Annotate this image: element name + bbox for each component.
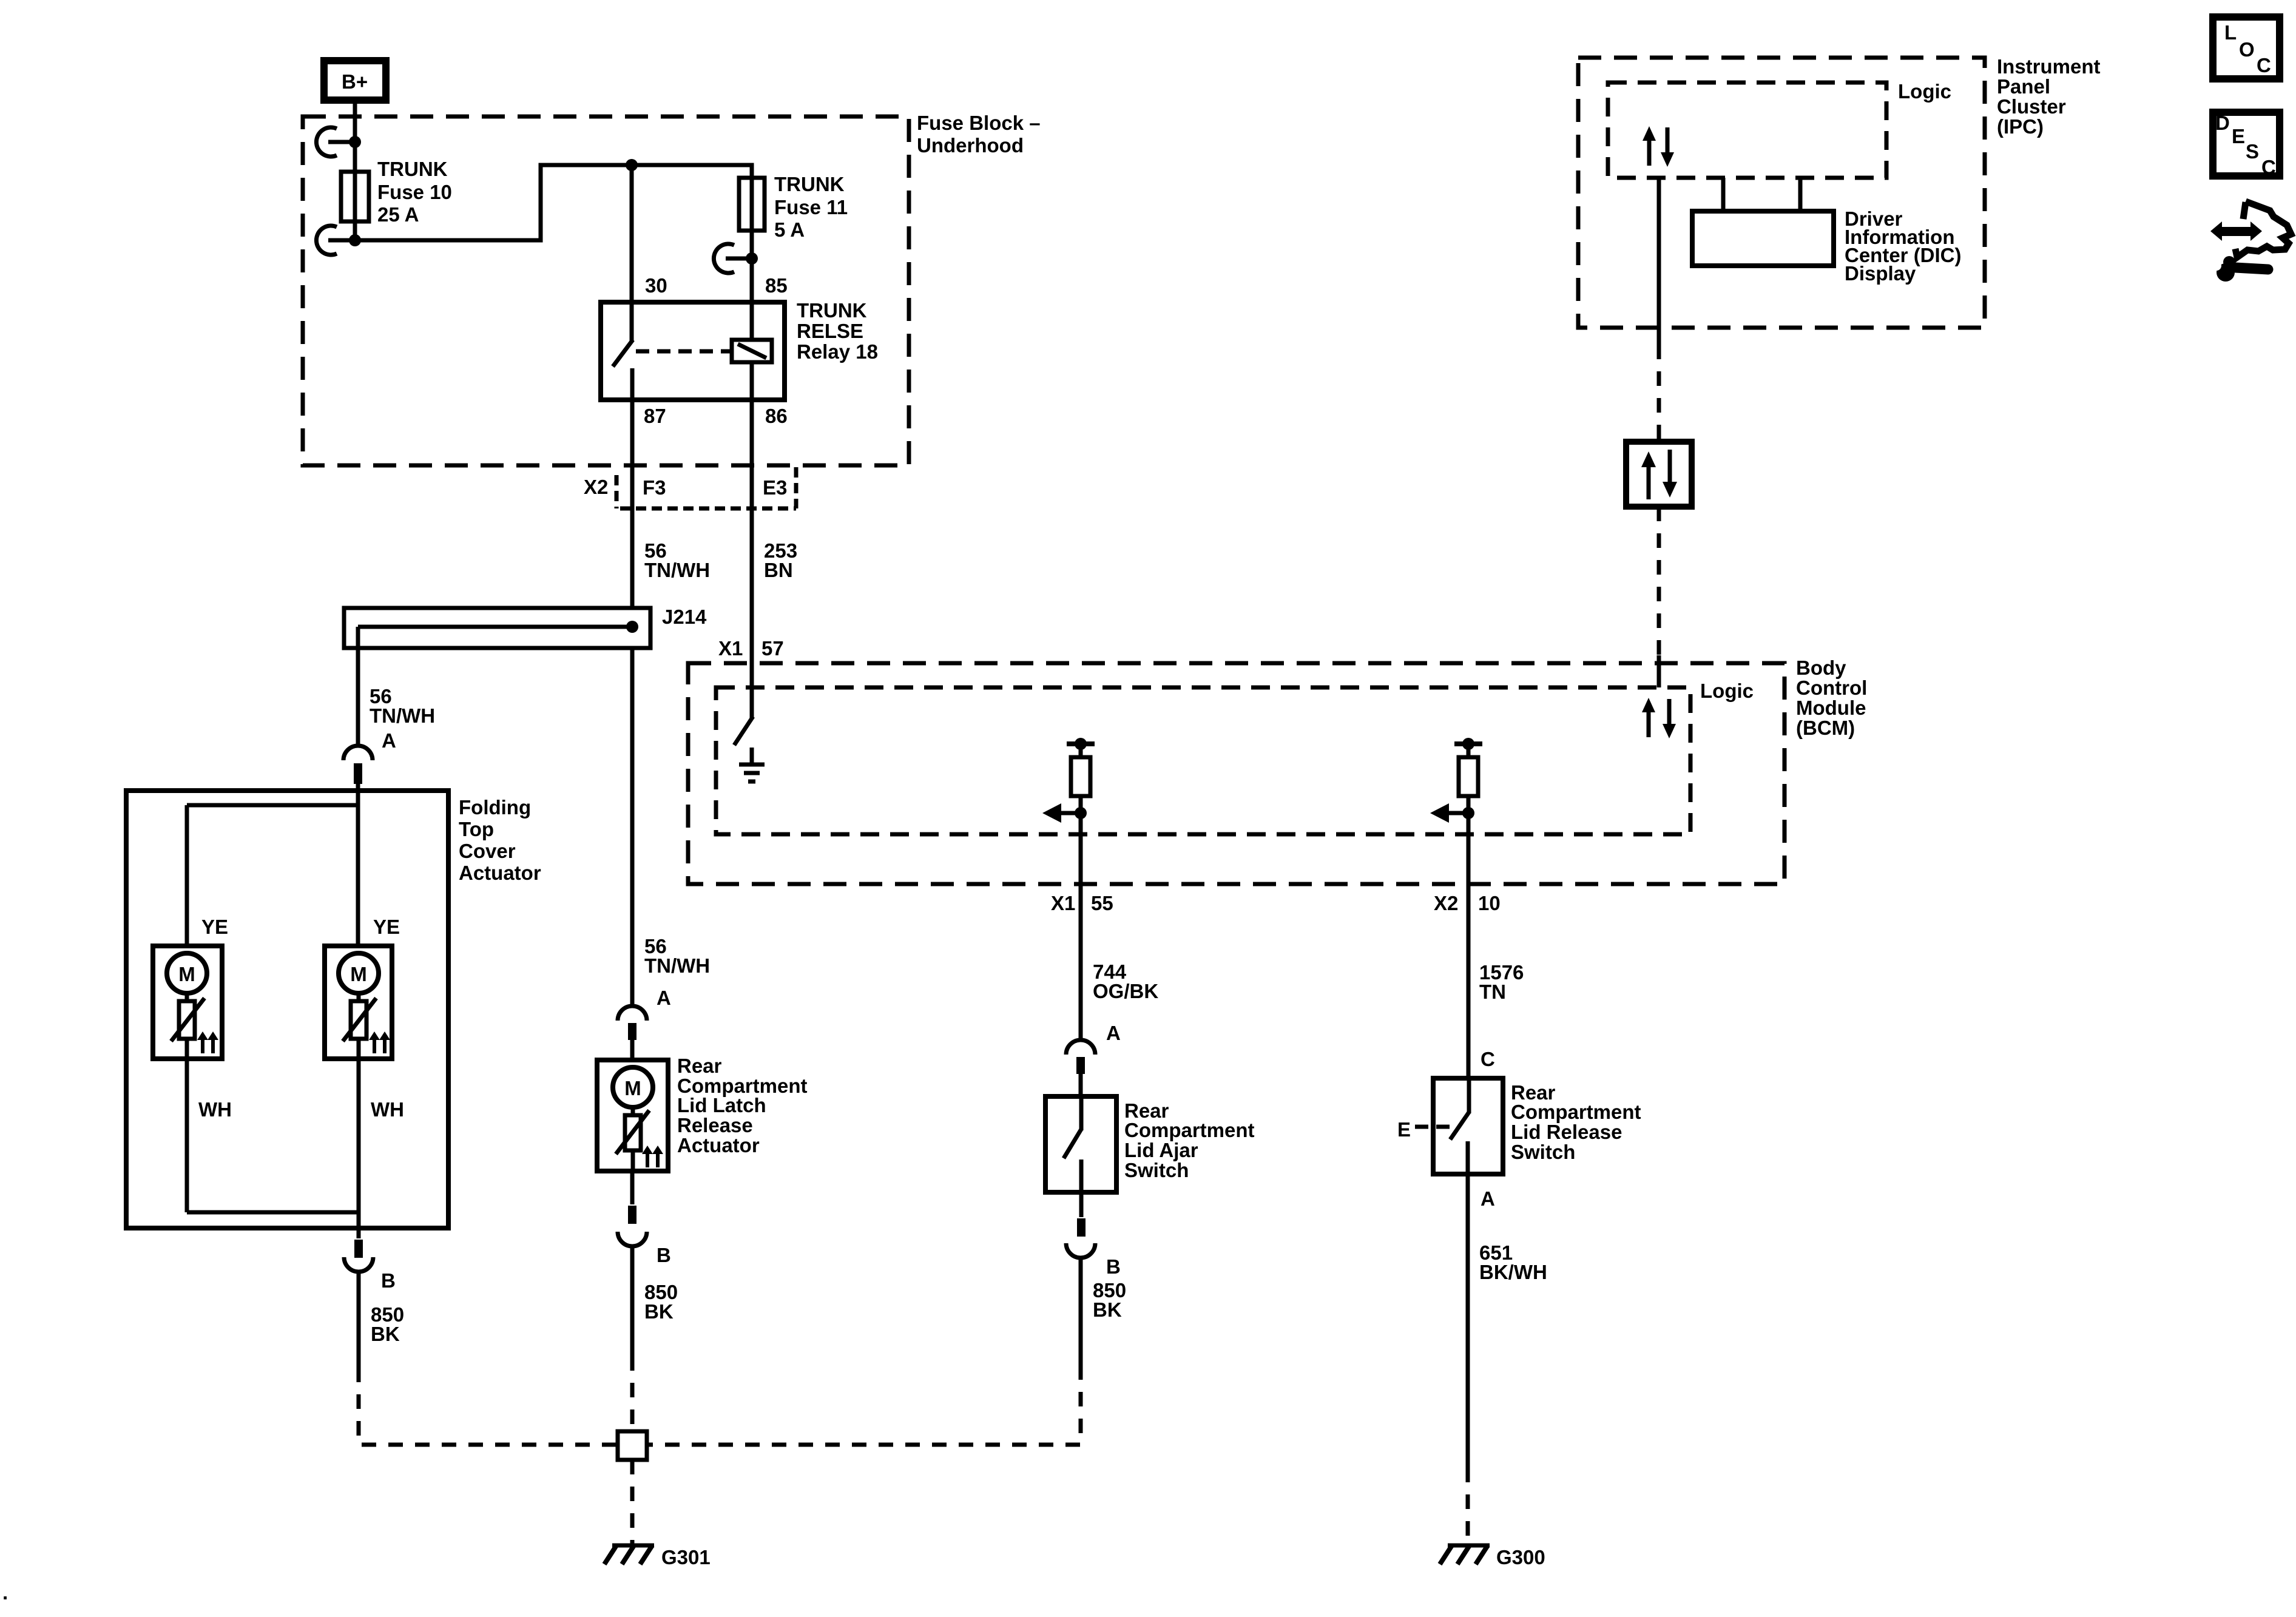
wire into BCM pin 57 bbox=[750, 663, 754, 718]
svg-text:TRUNK: TRUNK bbox=[797, 299, 867, 322]
svg-text:(BCM): (BCM) bbox=[1796, 717, 1855, 739]
wire latch branch down bbox=[630, 648, 635, 1006]
fuse F10 TRUNK Fuse 10 25A bbox=[341, 172, 369, 221]
svg-text:X1: X1 bbox=[718, 637, 743, 660]
svg-text:TN: TN bbox=[1479, 981, 1506, 1003]
svg-text:BK: BK bbox=[371, 1323, 400, 1345]
svg-text:TRUNK: TRUNK bbox=[774, 173, 845, 195]
DESC legend box bbox=[2213, 112, 2280, 178]
svg-text:55: 55 bbox=[1091, 892, 1113, 914]
wire BCM to ajar switch upper bbox=[1079, 813, 1083, 1040]
wire stub DIC right bbox=[1798, 178, 1803, 211]
label Rear Compartment Lid Release Switch bbox=[1511, 1081, 1641, 1163]
svg-text:RELSE: RELSE bbox=[797, 320, 863, 342]
wire B+ to fuse block bbox=[353, 100, 357, 172]
wire label 56 TN/WH bbox=[644, 935, 710, 977]
label E actuation bbox=[1397, 1118, 1450, 1141]
svg-text:Fuse Block –: Fuse Block – bbox=[917, 112, 1041, 134]
svg-text:5 A: 5 A bbox=[774, 218, 805, 241]
svg-text:Compartment: Compartment bbox=[1511, 1101, 1641, 1123]
wire label 850 BK bbox=[644, 1281, 678, 1323]
svg-text:85: 85 bbox=[765, 274, 788, 297]
wire label 850 BK bbox=[1093, 1279, 1126, 1321]
svg-text:G301: G301 bbox=[661, 1546, 711, 1568]
inline connector B folding top bbox=[344, 1240, 373, 1272]
svg-text:86: 86 bbox=[765, 405, 788, 427]
Rear Compartment Lid Latch Release Actuator box bbox=[597, 1060, 668, 1171]
svg-text:YE: YE bbox=[373, 916, 400, 938]
svg-text:Module: Module bbox=[1796, 697, 1866, 719]
wire dashed ajar to ground bus bbox=[647, 1365, 1081, 1445]
svg-text:Instrument: Instrument bbox=[1997, 55, 2101, 78]
svg-text:Logic: Logic bbox=[1898, 80, 1951, 103]
svg-text:57: 57 bbox=[761, 637, 784, 660]
wire label 744 OG/BK bbox=[1093, 960, 1158, 1002]
wire stub DIC left bbox=[1721, 178, 1726, 211]
wire junction to relay pin30 bbox=[630, 165, 634, 302]
svg-text:X1: X1 bbox=[1051, 892, 1075, 914]
Folding Top Cover Actuator box bbox=[126, 791, 448, 1228]
legend icon: double arrow, hand outline, wrench bbox=[2210, 201, 2291, 282]
wire dashed to ground bus bbox=[359, 1368, 618, 1445]
connector stub at fuse 10 top bbox=[316, 127, 355, 157]
label Folding Top Cover Actuator bbox=[459, 796, 541, 884]
svg-text:B: B bbox=[657, 1244, 671, 1266]
svg-text:Rear: Rear bbox=[677, 1055, 722, 1077]
wire fuse10 bottom to fuse11 top routing bbox=[355, 165, 752, 240]
svg-text:25 A: 25 A bbox=[377, 203, 419, 226]
svg-text:Folding: Folding bbox=[459, 796, 531, 819]
inline connector A to latch actuator bbox=[618, 1006, 647, 1060]
svg-text:WH: WH bbox=[371, 1098, 404, 1121]
svg-text:BK: BK bbox=[1093, 1298, 1122, 1321]
label Fuse Block Underhood bbox=[917, 112, 1041, 157]
Fuse Block - Underhood dashed box bbox=[303, 116, 909, 465]
serial data link box bbox=[1626, 442, 1692, 507]
svg-text:87: 87 bbox=[644, 405, 666, 427]
Rear Compartment Lid Ajar Switch box bbox=[1045, 1096, 1116, 1192]
svg-text:TRUNK: TRUNK bbox=[377, 158, 448, 180]
wire branch left down bbox=[185, 805, 189, 946]
wire into actuator right branch bbox=[356, 784, 360, 946]
node: junction dot under R2 bbox=[1462, 807, 1474, 819]
wire dashed to G300 bbox=[1466, 1468, 1470, 1544]
svg-text:A: A bbox=[657, 987, 671, 1009]
wire solid below connector B bbox=[357, 1272, 361, 1368]
label Rear Compartment Lid Latch Release Actuator bbox=[677, 1055, 808, 1156]
svg-text:WH: WH bbox=[198, 1098, 232, 1121]
label TRUNK RELSE Relay 18 bbox=[797, 299, 878, 363]
label Rear Compartment Lid Ajar Switch bbox=[1124, 1099, 1255, 1181]
IPC Logic dashed box bbox=[1608, 83, 1886, 178]
wire solid to splice bbox=[630, 1246, 635, 1356]
wire dashed splice to G301 bbox=[630, 1460, 635, 1544]
svg-text:Logic: Logic bbox=[1700, 680, 1754, 702]
svg-text:B+: B+ bbox=[342, 70, 368, 93]
svg-text:A: A bbox=[1106, 1022, 1121, 1044]
node: junction dot below fuse 11 bbox=[746, 252, 758, 265]
svg-text:B: B bbox=[1106, 1255, 1121, 1278]
BCM internal switch blade bbox=[734, 717, 753, 745]
svg-text:C: C bbox=[1481, 1048, 1495, 1070]
wire label 651 BK/WH bbox=[1479, 1241, 1547, 1283]
svg-text:Panel: Panel bbox=[1997, 75, 2050, 98]
svg-text:OG/BK: OG/BK bbox=[1093, 980, 1158, 1002]
wire ajar switch down bbox=[1079, 1192, 1084, 1217]
wire label 850 BK bbox=[371, 1303, 404, 1345]
svg-text:10: 10 bbox=[1478, 892, 1501, 914]
node: junction dot under R1 bbox=[1075, 807, 1087, 819]
Instrument Panel Cluster dashed box bbox=[1578, 58, 1985, 328]
BCM internal ground bbox=[739, 748, 765, 781]
svg-text:X2: X2 bbox=[1434, 892, 1458, 914]
svg-text:E: E bbox=[1397, 1118, 1411, 1141]
LOC legend box bbox=[2213, 17, 2280, 79]
relay switch blade bbox=[613, 302, 633, 400]
svg-text:D: D bbox=[2215, 112, 2230, 134]
svg-text:B: B bbox=[381, 1269, 396, 1292]
svg-text:TN/WH: TN/WH bbox=[644, 954, 710, 977]
label TRUNK Fuse 10 25 A bbox=[377, 158, 452, 226]
wire motor2 down through box bbox=[357, 1059, 361, 1238]
motor M1 folding top left bbox=[153, 946, 222, 1059]
svg-text:TN/WH: TN/WH bbox=[644, 559, 710, 581]
node: junction dot at fuse 10 bottom bbox=[349, 234, 361, 246]
ground splice box bbox=[618, 1431, 647, 1460]
svg-text:O: O bbox=[2239, 38, 2255, 61]
svg-text:Underhood: Underhood bbox=[917, 134, 1024, 157]
connector stub below fuse 11 bbox=[714, 244, 752, 273]
svg-text:M: M bbox=[178, 963, 195, 985]
wire dashed arrow box to BCM bbox=[1657, 507, 1661, 655]
wire joining horizontal bbox=[187, 1210, 359, 1215]
wire J214 left branch down bbox=[356, 627, 360, 746]
relay coil bbox=[732, 302, 772, 400]
motor M2 folding top right bbox=[325, 946, 392, 1059]
connector row X2 F3 E3 bbox=[616, 467, 796, 508]
wire label 253 BN bbox=[764, 539, 797, 581]
svg-text:Lid Ajar: Lid Ajar bbox=[1124, 1139, 1198, 1161]
label Body Control Module (BCM) bbox=[1796, 657, 1867, 739]
svg-text:S: S bbox=[2246, 140, 2259, 163]
svg-text:M: M bbox=[624, 1077, 641, 1099]
connector stub at fuse 10 bottom bbox=[316, 226, 355, 255]
inline connector A to folding top bbox=[343, 746, 373, 784]
svg-text:Lid Latch: Lid Latch bbox=[677, 1094, 766, 1116]
BCM inner Logic dashed box bbox=[716, 687, 1690, 834]
wire dashed to ground splice bbox=[630, 1356, 635, 1431]
resistor R2 in BCM bbox=[1454, 738, 1482, 813]
svg-text:E3: E3 bbox=[763, 476, 787, 499]
svg-text:Release: Release bbox=[677, 1114, 753, 1136]
svg-text:C: C bbox=[2257, 54, 2271, 76]
svg-text:C: C bbox=[2261, 156, 2276, 178]
wire IPC logic down bbox=[1657, 178, 1661, 345]
svg-text:Lid Release: Lid Release bbox=[1511, 1121, 1622, 1143]
wire relay pin 86 down bbox=[750, 400, 754, 663]
label TRUNK Fuse 11 5 A bbox=[774, 173, 848, 241]
svg-text:Cover: Cover bbox=[459, 840, 516, 862]
wire solid into BCM logic bbox=[1657, 655, 1661, 687]
inline connector B latch actuator bbox=[618, 1206, 647, 1246]
svg-text:A: A bbox=[1481, 1187, 1495, 1210]
battery feed B+ bbox=[324, 61, 386, 100]
svg-text:Compartment: Compartment bbox=[1124, 1119, 1255, 1141]
node: junction dot J214 bbox=[626, 621, 638, 633]
relay dashed actuation link bbox=[636, 349, 732, 354]
Body Control Module outer dashed box bbox=[688, 663, 1784, 884]
svg-text:TN/WH: TN/WH bbox=[370, 704, 435, 727]
BCM serial data arrows bbox=[1642, 698, 1676, 738]
fuse F11 TRUNK Fuse 11 5A bbox=[739, 178, 765, 231]
wire label 1576 TN bbox=[1479, 961, 1524, 1003]
svg-text:Cluster: Cluster bbox=[1997, 95, 2066, 118]
label Driver Information Center (DIC) Display bbox=[1845, 208, 1962, 285]
svg-text:YE: YE bbox=[201, 916, 228, 938]
wire dashed IPC to arrow box bbox=[1657, 345, 1661, 442]
ground G301 bbox=[604, 1545, 654, 1564]
svg-text:Fuse 11: Fuse 11 bbox=[774, 196, 848, 218]
svg-text:30: 30 bbox=[645, 274, 667, 297]
Driver Information Center display box bbox=[1692, 211, 1834, 266]
wire latch actuator down bbox=[630, 1171, 635, 1204]
svg-text:Display: Display bbox=[1845, 262, 1916, 285]
node: junction dot at fuse 10 top bbox=[349, 136, 361, 148]
IPC serial data arrows bbox=[1643, 126, 1674, 167]
svg-text:G300: G300 bbox=[1496, 1546, 1545, 1568]
svg-text:Relay 18: Relay 18 bbox=[797, 340, 878, 363]
inline connector A to ajar switch bbox=[1066, 1040, 1095, 1096]
wire fuse11 to relay pin85 bbox=[750, 231, 754, 302]
svg-text:Body: Body bbox=[1796, 657, 1846, 679]
Rear Compartment Lid Release Switch box bbox=[1433, 1078, 1503, 1174]
svg-text:L: L bbox=[2224, 21, 2237, 44]
inline connector B ajar switch bbox=[1066, 1218, 1095, 1258]
svg-text:Switch: Switch bbox=[1511, 1141, 1575, 1163]
resistor R1 in BCM bbox=[1067, 738, 1095, 813]
node: junction dot on top rail bbox=[626, 159, 638, 171]
svg-text:BN: BN bbox=[764, 559, 793, 581]
svg-text:.: . bbox=[2, 1581, 8, 1604]
wire BCM to release switch bbox=[1467, 813, 1471, 1078]
wire label 56 TN/WH bbox=[644, 539, 710, 581]
svg-text:F3: F3 bbox=[643, 476, 666, 499]
svg-text:E: E bbox=[2232, 125, 2245, 147]
output arrow at R2 bbox=[1430, 803, 1468, 823]
svg-text:X2: X2 bbox=[584, 476, 608, 498]
svg-text:BK: BK bbox=[644, 1300, 674, 1323]
relay K18 TRUNK RELSE Relay 18 box bbox=[601, 302, 785, 400]
wire label 56 TN/WH bbox=[370, 685, 435, 727]
svg-text:J214: J214 bbox=[662, 606, 707, 628]
svg-text:BK/WH: BK/WH bbox=[1479, 1261, 1547, 1283]
wire release switch down bbox=[1466, 1174, 1470, 1468]
svg-text:M: M bbox=[350, 963, 367, 985]
splice J214 bbox=[344, 608, 650, 648]
wire branch horizontal bbox=[187, 803, 358, 808]
svg-text:A: A bbox=[382, 729, 396, 752]
wire relay pin 87 down bbox=[630, 400, 635, 608]
svg-text:Switch: Switch bbox=[1124, 1159, 1189, 1181]
svg-text:Fuse 10: Fuse 10 bbox=[377, 181, 452, 203]
svg-text:Top: Top bbox=[459, 818, 494, 840]
label Instrument Panel Cluster (IPC) bbox=[1997, 55, 2101, 138]
ground G300 bbox=[1440, 1545, 1490, 1564]
output arrow at R1 bbox=[1042, 803, 1081, 823]
wire solid ajar to bus bbox=[1079, 1258, 1083, 1365]
svg-text:Actuator: Actuator bbox=[459, 862, 541, 884]
wire motor1 down bbox=[185, 1059, 189, 1212]
svg-text:Actuator: Actuator bbox=[677, 1134, 760, 1156]
svg-text:Control: Control bbox=[1796, 677, 1867, 699]
svg-text:(IPC): (IPC) bbox=[1997, 115, 2044, 138]
